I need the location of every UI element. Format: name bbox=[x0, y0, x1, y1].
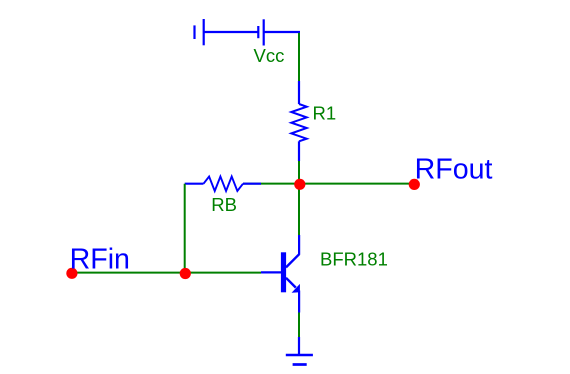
svg-text:RFin: RFin bbox=[70, 243, 130, 275]
wire battery to R1 bbox=[298, 33, 300, 82]
svg-text:Vcc: Vcc bbox=[254, 45, 285, 66]
resistor RB bbox=[185, 177, 261, 192]
wire RFin to junction bbox=[72, 272, 185, 274]
node A junction dot (collector node) bbox=[294, 179, 305, 190]
svg-text:RB: RB bbox=[211, 194, 237, 215]
node RFin terminal dot bbox=[66, 268, 77, 279]
resistor R1 bbox=[291, 81, 306, 161]
node input junction dot bbox=[180, 268, 191, 279]
wire emitter to ground bbox=[298, 313, 300, 338]
battery V1 (Vcc source) bbox=[195, 19, 301, 46]
wire junction to base bbox=[185, 272, 261, 274]
svg-text:R1: R1 bbox=[313, 103, 337, 124]
wire R1 to node A (collector column) bbox=[298, 161, 300, 236]
svg-text:BFR181: BFR181 bbox=[320, 248, 388, 269]
node RFout terminal dot bbox=[409, 179, 420, 190]
wire node A to RFout bbox=[299, 183, 410, 185]
transistor Q1 BFR181 bbox=[261, 235, 300, 313]
wire RB to node A bbox=[243, 183, 299, 185]
ground bbox=[286, 337, 313, 365]
svg-text:RFout: RFout bbox=[415, 154, 493, 186]
wire RB left lead down to input net bbox=[184, 184, 186, 273]
